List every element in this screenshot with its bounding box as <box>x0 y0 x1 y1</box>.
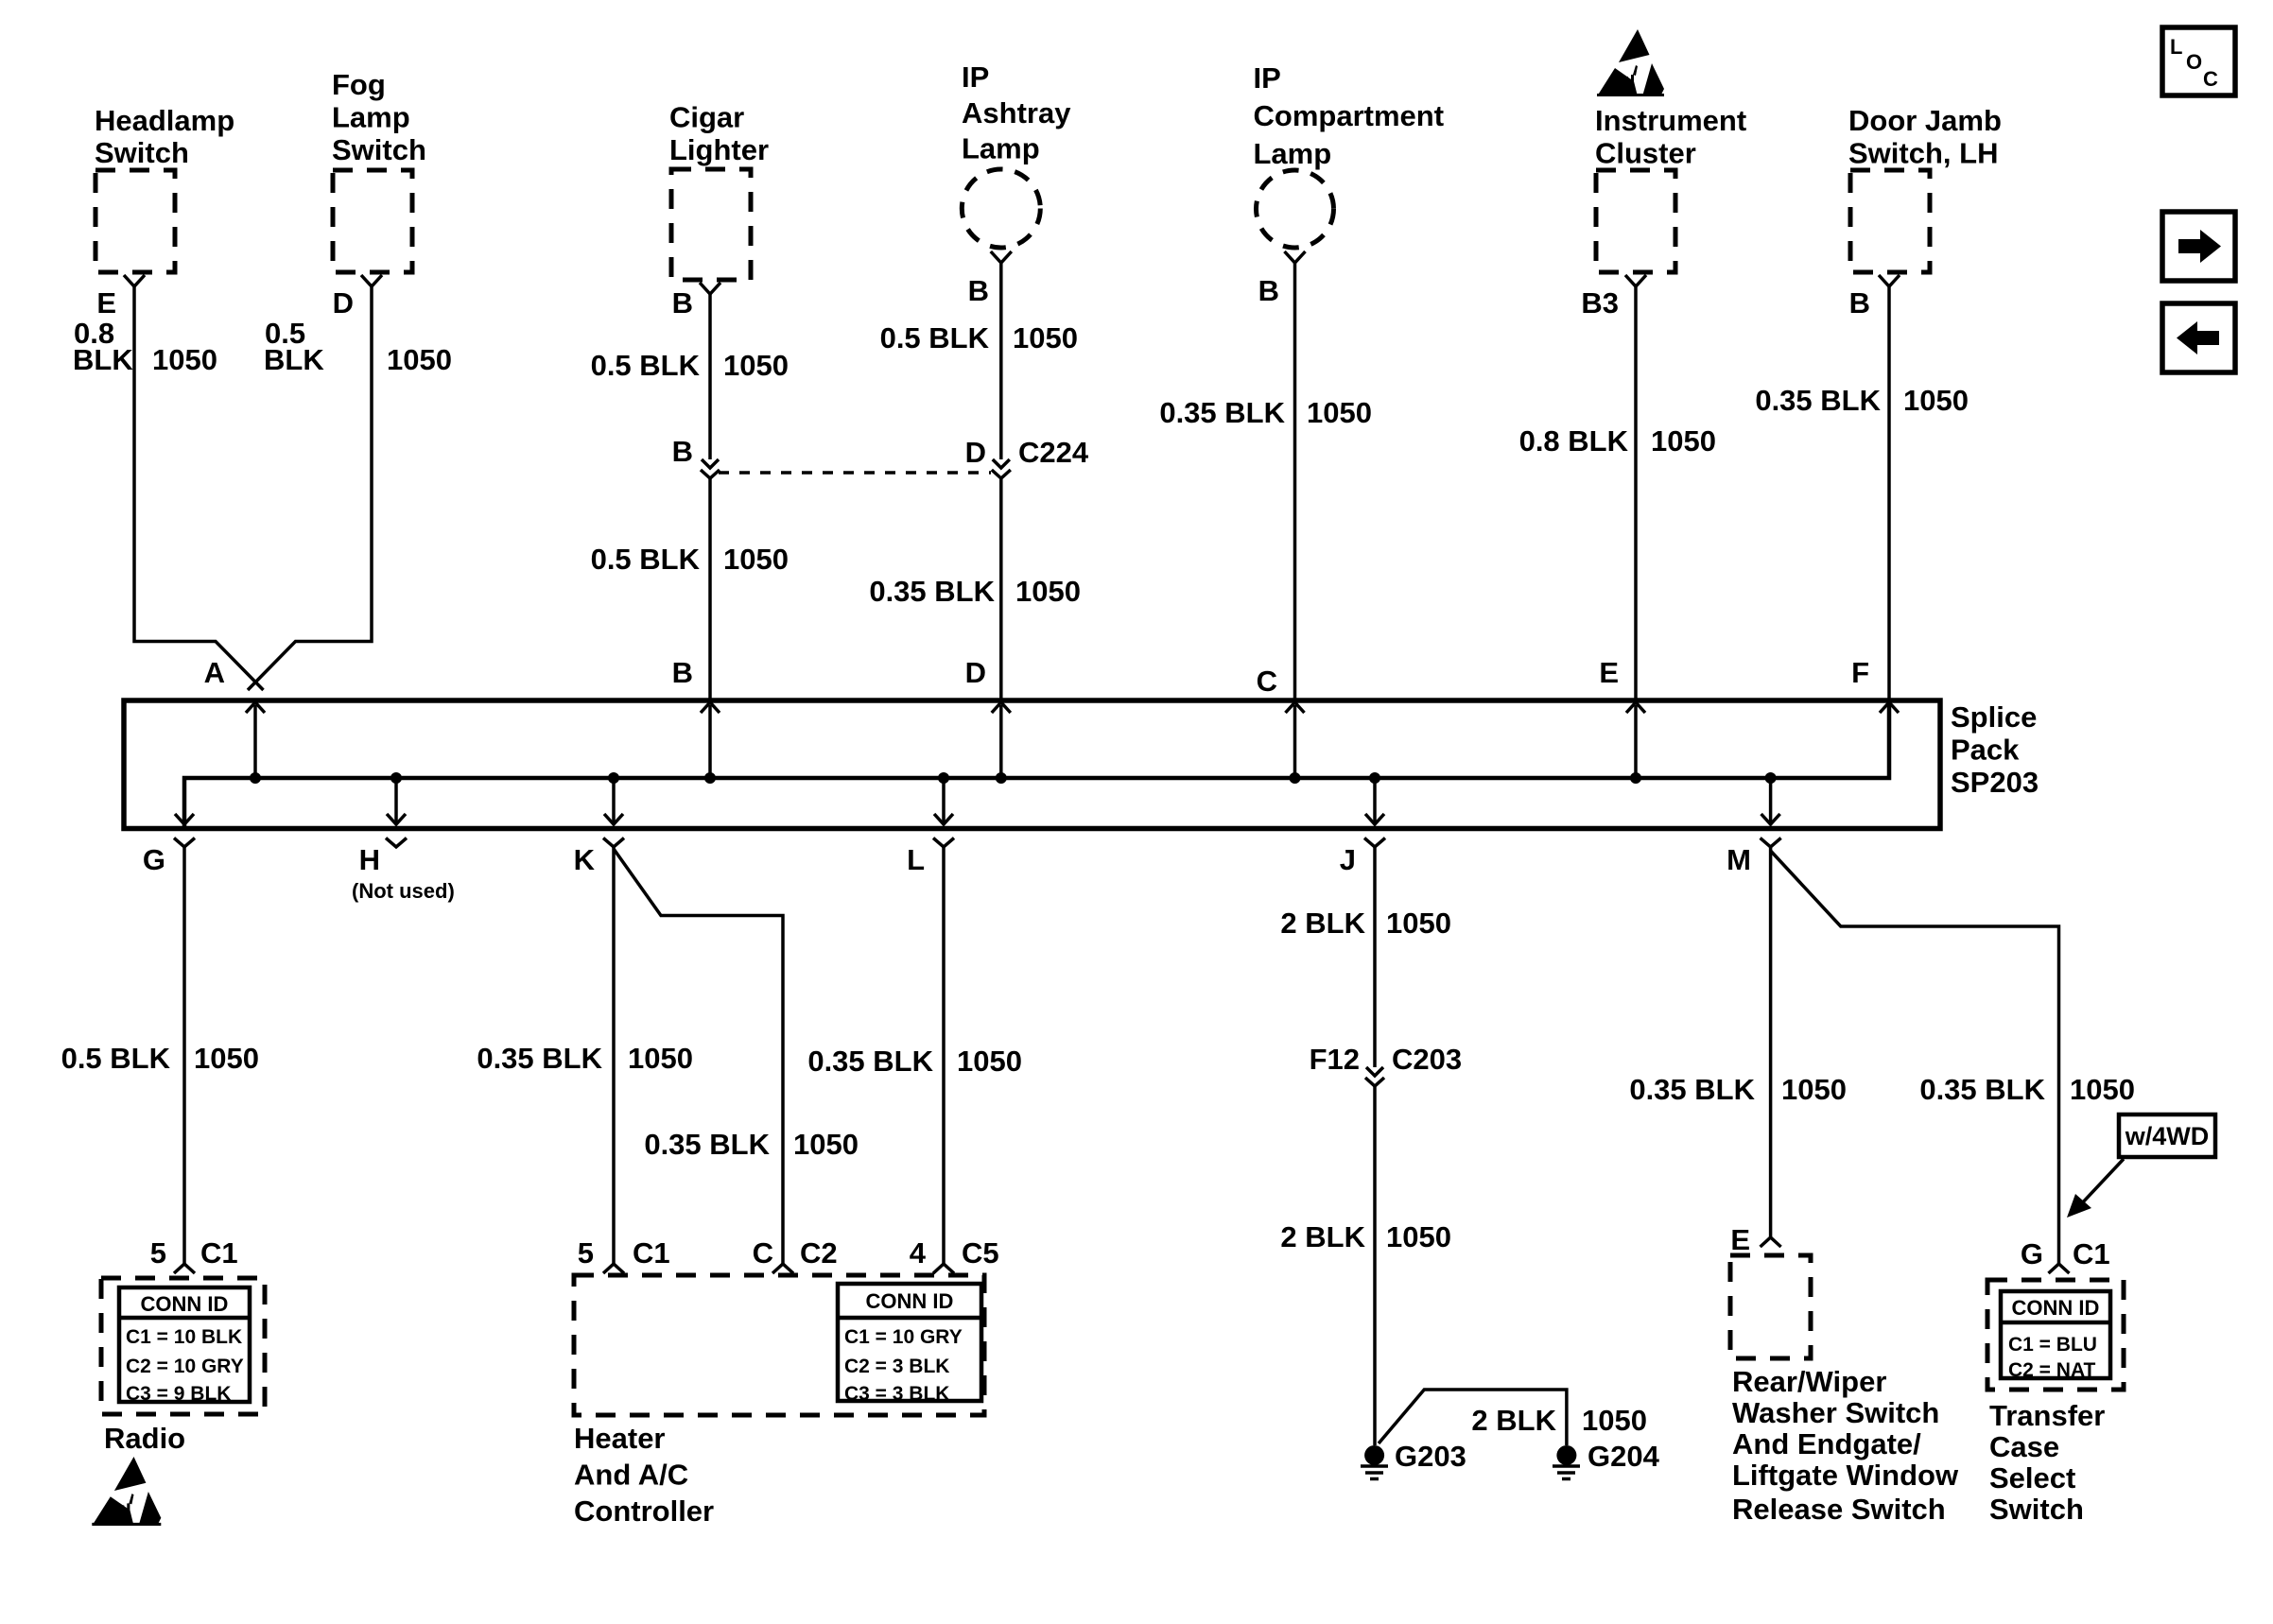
svg-text:G: G <box>143 843 165 876</box>
svg-text:B: B <box>672 286 693 320</box>
label 0.5 BLK cigar <box>591 349 701 382</box>
arrow-right box <box>2162 212 2235 281</box>
svg-text:1050: 1050 <box>387 343 452 376</box>
svg-text:1050: 1050 <box>1015 575 1081 608</box>
svg-text:And Endgate/: And Endgate/ <box>1732 1427 1921 1460</box>
IP ashtray lamp label <box>962 60 1071 165</box>
svg-text:IP: IP <box>962 60 989 94</box>
splice internal stub M <box>1769 778 1773 824</box>
svg-text:E: E <box>1599 656 1619 689</box>
junction dot A <box>250 772 261 784</box>
wire 0.35 BLK 1050 transfer case <box>1771 851 2059 1264</box>
label not used <box>352 879 455 903</box>
svg-text:Washer Switch: Washer Switch <box>1732 1396 1939 1429</box>
svg-text:5: 5 <box>578 1236 594 1270</box>
svg-text:1050: 1050 <box>793 1128 859 1161</box>
label 0.35 BLK m2 <box>1919 1073 2045 1106</box>
junction dot D <box>996 772 1007 784</box>
label 1050 heater1 <box>628 1042 693 1075</box>
junction dot M <box>1765 772 1777 784</box>
svg-text:Controller: Controller <box>574 1494 714 1528</box>
svg-text:D: D <box>333 286 354 320</box>
svg-text:CONN ID: CONN ID <box>2012 1296 2100 1320</box>
svg-text:C2: C2 <box>800 1236 838 1270</box>
svg-text:C1 = BLU: C1 = BLU <box>2008 1334 2097 1356</box>
splice internal stub K <box>612 778 616 824</box>
junction dot H <box>390 772 402 784</box>
svg-text:1050: 1050 <box>152 343 217 376</box>
svg-text:C2 = 10 GRY: C2 = 10 GRY <box>126 1356 244 1377</box>
splice exit arrow K <box>604 814 623 824</box>
wire 0.35 BLK 1050 rear wiper <box>1769 847 1773 1237</box>
svg-text:F: F <box>1851 656 1869 689</box>
svg-text:1050: 1050 <box>2070 1073 2135 1106</box>
svg-text:0.5 BLK: 0.5 BLK <box>591 349 701 382</box>
pin letter E <box>96 286 116 320</box>
w4WD arrow <box>2067 1159 2124 1218</box>
svg-text:M: M <box>1726 843 1751 876</box>
label 0.5 BLK radio <box>61 1042 171 1075</box>
label 1050 heater2 <box>793 1128 859 1161</box>
rear wiper pin marker <box>1761 1237 1781 1247</box>
fog lamp switch box <box>333 170 412 272</box>
cigar lighter label <box>669 101 769 167</box>
heater pin 4 marker <box>933 1264 954 1273</box>
svg-text:Lamp: Lamp <box>962 132 1040 165</box>
pin G transfer <box>2021 1237 2043 1270</box>
svg-text:5: 5 <box>150 1236 166 1270</box>
svg-text:Radio: Radio <box>104 1422 185 1455</box>
svg-text:0.35 BLK: 0.35 BLK <box>1159 396 1285 429</box>
pin letter B ashtray <box>968 274 989 307</box>
label 1050 headlamp <box>152 343 217 376</box>
pin C5 heater <box>962 1236 999 1270</box>
pin letter K <box>574 843 596 876</box>
svg-text:CONN ID: CONN ID <box>866 1289 954 1313</box>
svg-text:Headlamp: Headlamp <box>95 104 234 137</box>
headlamp switch label <box>95 104 234 169</box>
svg-text:1050: 1050 <box>194 1042 259 1075</box>
pin letter H <box>359 843 380 876</box>
radio connector box <box>101 1278 265 1414</box>
IP compartment lamp label <box>1254 61 1445 170</box>
heater pin C marker <box>772 1264 793 1273</box>
svg-text:0.35 BLK: 0.35 BLK <box>1755 384 1881 417</box>
label 0.8 BLK <box>73 317 133 376</box>
svg-text:E: E <box>1730 1223 1750 1256</box>
svg-text:C: C <box>2203 67 2218 91</box>
ground bridge wire to G204 <box>1379 1390 1567 1445</box>
svg-text:C3 = 3 BLK: C3 = 3 BLK <box>844 1383 949 1405</box>
svg-text:Ashtray: Ashtray <box>962 96 1071 130</box>
label 1050 m2 <box>2070 1073 2135 1106</box>
splice internal stub A <box>253 705 257 778</box>
pin letter B compartment <box>1258 274 1279 307</box>
pin letter G <box>143 843 165 876</box>
radio conn id table <box>119 1287 250 1405</box>
junction dot C <box>1290 772 1301 784</box>
svg-text:0.35 BLK: 0.35 BLK <box>869 575 995 608</box>
heater conn id table <box>838 1284 981 1405</box>
splice pin marker L <box>933 838 954 848</box>
fog lamp switch label <box>332 68 426 166</box>
splice pack label <box>1951 700 2039 799</box>
label 1050 radio <box>194 1042 259 1075</box>
splice pin marker M <box>1761 838 1781 848</box>
splice entry arrow A <box>246 702 265 713</box>
heater label <box>574 1422 714 1528</box>
svg-text:Case: Case <box>1989 1430 2059 1463</box>
svg-text:L: L <box>2170 35 2182 59</box>
headlamp switch pin E marker <box>124 275 145 286</box>
svg-text:Switch, LH: Switch, LH <box>1848 137 1998 170</box>
svg-text:C: C <box>1257 665 1277 698</box>
svg-text:C1: C1 <box>633 1236 670 1270</box>
wire 0.35 BLK 1050 ashtray lower <box>999 478 1003 700</box>
svg-text:Rear/Wiper: Rear/Wiper <box>1732 1365 1886 1398</box>
label 0.35 BLK doorjamb <box>1755 384 1881 417</box>
splice internal stub E <box>1634 705 1638 778</box>
splice internal stub H <box>394 778 398 824</box>
w4WD callout box <box>2119 1114 2215 1157</box>
svg-text:1050: 1050 <box>957 1045 1022 1078</box>
wire 0.35 BLK 1050 heater C5 <box>942 847 946 1264</box>
svg-text:Instrument: Instrument <box>1595 104 1746 137</box>
junction dot E <box>1630 772 1641 784</box>
svg-text:G204: G204 <box>1588 1440 1660 1473</box>
svg-text:1050: 1050 <box>1582 1404 1647 1437</box>
pin C1 transfer <box>2073 1237 2110 1270</box>
door jamb switch box <box>1850 170 1930 272</box>
rear wiper label <box>1732 1365 1959 1526</box>
svg-text:J: J <box>1340 843 1356 876</box>
svg-text:B: B <box>672 435 693 468</box>
svg-text:Switch: Switch <box>1989 1493 2084 1526</box>
ground label G204 <box>1588 1440 1660 1473</box>
svg-text:Release Switch: Release Switch <box>1732 1493 1946 1526</box>
label 0.5 BLK ashtray <box>880 321 990 354</box>
splice pin marker J <box>1364 838 1385 848</box>
svg-text:1050: 1050 <box>1386 907 1451 940</box>
ESD symbol instrument cluster <box>1597 29 1664 96</box>
wire 0.5 BLK 1050 cigar lower <box>708 478 712 700</box>
splice internal stub C <box>1293 705 1297 778</box>
svg-text:C5: C5 <box>962 1236 999 1270</box>
pin letter D at C224 <box>965 436 986 469</box>
svg-text:SP203: SP203 <box>1951 766 2039 799</box>
splice entry arrow E <box>1626 702 1645 713</box>
ESD symbol radio <box>92 1457 161 1526</box>
svg-text:C2 = NAT: C2 = NAT <box>2008 1359 2096 1381</box>
pin C1 radio <box>200 1236 238 1270</box>
splice pack SP203 box <box>124 700 1940 829</box>
svg-text:B3: B3 <box>1581 286 1619 320</box>
pin 5 radio <box>150 1236 166 1270</box>
svg-text:0.5 BLK: 0.5 BLK <box>880 321 990 354</box>
svg-text:And A/C: And A/C <box>574 1459 688 1492</box>
svg-text:B: B <box>1849 286 1870 320</box>
ground G204 <box>1553 1445 1580 1479</box>
wire 0.35 BLK 1050 compartment <box>1293 263 1297 700</box>
transfer case label <box>1989 1399 2105 1526</box>
svg-text:O: O <box>2186 50 2202 74</box>
pin F12 <box>1310 1043 1360 1076</box>
transfer pin marker <box>2049 1264 2070 1273</box>
svg-text:1050: 1050 <box>723 543 789 576</box>
in-line connector C203 <box>1365 1067 1384 1086</box>
label 0.35 BLK m1 <box>1629 1073 1755 1106</box>
label 1050 fog <box>387 343 452 376</box>
svg-text:1050: 1050 <box>1781 1073 1847 1106</box>
splice pin marker H <box>386 838 407 848</box>
fog lamp switch pin D marker <box>361 275 382 286</box>
pin letter M <box>1726 843 1751 876</box>
splice bus bar <box>184 703 1889 826</box>
svg-text:Lamp: Lamp <box>332 101 410 134</box>
splice internal stub D <box>999 705 1003 778</box>
svg-text:1050: 1050 <box>1307 396 1372 429</box>
svg-text:D: D <box>965 436 986 469</box>
splice exit arrow M <box>1761 814 1780 824</box>
svg-text:B: B <box>968 274 989 307</box>
svg-text:G203: G203 <box>1395 1440 1466 1473</box>
wire 0.8 BLK 1050 from headlamp switch <box>134 286 264 690</box>
cigar lighter pin B marker <box>700 283 720 294</box>
label 0.5 BLK fog <box>264 317 324 376</box>
pin letter B above connector <box>672 435 693 468</box>
IP ashtray lamp circle <box>962 169 1040 248</box>
wire 0.5 BLK 1050 cigar upper <box>708 294 712 459</box>
svg-text:w/4WD: w/4WD <box>2125 1122 2210 1150</box>
transfer case connector box <box>1987 1280 2124 1390</box>
svg-text:Switch: Switch <box>95 136 189 169</box>
splice entry arrow B <box>701 702 720 713</box>
svg-text:B: B <box>1258 274 1279 307</box>
splice exit arrow H <box>387 814 406 824</box>
label 0.35 BLK heater3 <box>807 1045 933 1078</box>
label 1050 cigar lower <box>723 543 789 576</box>
label 0.5 BLK cigar lower <box>591 543 701 576</box>
instrument cluster box <box>1596 170 1675 272</box>
svg-text:Door Jamb: Door Jamb <box>1848 104 2002 137</box>
splice entry arrow D <box>992 702 1011 713</box>
splice internal stub B <box>708 705 712 778</box>
door jamb switch label <box>1848 104 2002 170</box>
splice exit arrow J <box>1365 814 1384 824</box>
junction dot K <box>608 772 619 784</box>
wire 0.35 BLK 1050 doorjamb <box>1887 286 1891 700</box>
svg-text:1050: 1050 <box>1651 424 1716 458</box>
svg-text:0.35 BLK: 0.35 BLK <box>807 1045 933 1078</box>
label 1050 m1 <box>1781 1073 1847 1106</box>
junction dot B <box>704 772 716 784</box>
pin letter L <box>907 843 925 876</box>
label 2 BLK j1 <box>1280 907 1365 940</box>
svg-text:1050: 1050 <box>723 349 789 382</box>
svg-text:Pack: Pack <box>1951 734 2020 767</box>
label 2 BLK j2 <box>1280 1220 1365 1253</box>
svg-text:0.5 BLK: 0.5 BLK <box>61 1042 171 1075</box>
svg-text:2 BLK: 2 BLK <box>1280 1220 1365 1253</box>
svg-text:F12: F12 <box>1310 1043 1360 1076</box>
pin C heater <box>753 1236 773 1270</box>
LOC reference box <box>2162 27 2235 95</box>
splice pin marker G <box>174 838 195 848</box>
svg-text:4: 4 <box>910 1236 927 1270</box>
svg-text:2 BLK: 2 BLK <box>1280 907 1365 940</box>
pin C1 heater <box>633 1236 670 1270</box>
ground label G203 <box>1395 1440 1466 1473</box>
splice entry arrow C <box>1286 702 1305 713</box>
pin C2 heater <box>800 1236 838 1270</box>
label 1050 ashtray lower <box>1015 575 1081 608</box>
dashed connector link C224 <box>719 471 991 475</box>
svg-text:A: A <box>204 656 225 689</box>
pin 5 heater <box>578 1236 594 1270</box>
svg-text:D: D <box>965 656 986 689</box>
svg-text:Switch: Switch <box>332 133 426 166</box>
svg-text:0.35 BLK: 0.35 BLK <box>1629 1073 1755 1106</box>
label 1050 instrument <box>1651 424 1716 458</box>
wire 0.35 BLK 1050 heater C1 <box>612 847 616 1264</box>
arrow-left box <box>2162 303 2235 372</box>
svg-text:C2 = 3 BLK: C2 = 3 BLK <box>844 1356 949 1377</box>
svg-text:C: C <box>753 1236 773 1270</box>
label 0.35 BLK ashtray lower <box>869 575 995 608</box>
heater connector box <box>574 1275 984 1415</box>
svg-text:Select: Select <box>1989 1461 2075 1494</box>
transfer conn id table <box>2001 1291 2110 1381</box>
splice exit arrow G <box>175 814 194 824</box>
pin letter B doorjamb <box>1849 286 1870 320</box>
ground G203 <box>1361 1445 1388 1479</box>
radio label <box>104 1422 185 1455</box>
connector label C224 <box>1018 436 1089 469</box>
svg-text:0.35 BLK: 0.35 BLK <box>1919 1073 2045 1106</box>
svg-text:Lighter: Lighter <box>669 133 769 166</box>
svg-text:CONN ID: CONN ID <box>141 1292 229 1316</box>
node A label <box>204 656 225 689</box>
label 1050 compartment <box>1307 396 1372 429</box>
splice exit arrow L <box>934 814 953 824</box>
svg-text:1050: 1050 <box>1386 1220 1451 1253</box>
pin letter D above splice <box>965 656 986 689</box>
svg-text:0.8 BLK: 0.8 BLK <box>1519 424 1629 458</box>
rear wiper switch box <box>1730 1255 1811 1358</box>
svg-text:(Not used): (Not used) <box>352 879 455 903</box>
wire 2 BLK 1050 lower <box>1373 1086 1377 1445</box>
svg-text:Liftgate Window: Liftgate Window <box>1732 1459 1959 1492</box>
svg-text:IP: IP <box>1254 61 1281 95</box>
label 2 BLK bridge <box>1471 1404 1556 1437</box>
wire 0.5 BLK 1050 to radio <box>182 847 186 1264</box>
label 0.35 BLK heater2 <box>644 1128 770 1161</box>
pin letter J <box>1340 843 1356 876</box>
svg-text:Splice: Splice <box>1951 700 2037 734</box>
IP compartment lamp circle <box>1257 170 1334 248</box>
svg-text:Lamp: Lamp <box>1254 137 1332 170</box>
ashtray pin B marker <box>991 251 1012 263</box>
label 0.8 BLK instrument <box>1519 424 1629 458</box>
pin letter E rear wiper <box>1730 1223 1750 1256</box>
splice entry arrow F <box>1880 702 1899 713</box>
instrument cluster label <box>1595 104 1746 170</box>
pin letter F above splice <box>1851 656 1869 689</box>
pin letter B above splice <box>672 656 693 689</box>
svg-text:C203: C203 <box>1392 1043 1462 1076</box>
svg-text:0.35 BLK: 0.35 BLK <box>477 1042 602 1075</box>
svg-text:0.5 BLK: 0.5 BLK <box>591 543 701 576</box>
splice internal stub J <box>1373 778 1377 824</box>
svg-text:2 BLK: 2 BLK <box>1471 1404 1556 1437</box>
svg-text:BLK: BLK <box>73 343 133 376</box>
svg-text:C1: C1 <box>200 1236 238 1270</box>
svg-text:Cluster: Cluster <box>1595 137 1696 170</box>
instrument pin B3 marker <box>1625 275 1646 286</box>
svg-text:K: K <box>574 843 596 876</box>
svg-text:Heater: Heater <box>574 1422 666 1455</box>
cigar lighter box <box>671 169 751 280</box>
compartment pin B marker <box>1285 251 1306 263</box>
pin letter B3 <box>1581 286 1619 320</box>
svg-text:B: B <box>672 656 693 689</box>
connector label C203 <box>1392 1043 1462 1076</box>
svg-text:Fog: Fog <box>332 68 386 101</box>
junction dot L <box>938 772 949 784</box>
svg-text:Compartment: Compartment <box>1254 99 1445 132</box>
label 1050 ashtray <box>1013 321 1078 354</box>
pin letter C above splice <box>1257 665 1277 698</box>
wire 2 BLK 1050 upper <box>1373 847 1377 1067</box>
svg-text:C1: C1 <box>2073 1237 2110 1270</box>
label 1050 j2 <box>1386 1220 1451 1253</box>
pin letter D <box>333 286 354 320</box>
label 1050 bridge <box>1582 1404 1647 1437</box>
door jamb pin B marker <box>1879 275 1900 286</box>
svg-text:L: L <box>907 843 925 876</box>
radio pin 5 marker <box>174 1264 195 1273</box>
in-line connector B side <box>701 459 720 478</box>
pin letter E above splice <box>1599 656 1619 689</box>
svg-text:C3 = 9 BLK: C3 = 9 BLK <box>126 1383 231 1405</box>
svg-text:0.35 BLK: 0.35 BLK <box>644 1128 770 1161</box>
svg-text:1050: 1050 <box>628 1042 693 1075</box>
wire 0.8 BLK 1050 instrument <box>1634 286 1638 700</box>
label 0.35 BLK heater1 <box>477 1042 602 1075</box>
svg-text:C1 = 10 BLK: C1 = 10 BLK <box>126 1326 242 1348</box>
svg-text:C224: C224 <box>1018 436 1089 469</box>
headlamp switch box <box>95 170 175 272</box>
svg-text:BLK: BLK <box>264 343 324 376</box>
pin 4 heater <box>910 1236 927 1270</box>
svg-text:H: H <box>359 843 380 876</box>
svg-text:Transfer: Transfer <box>1989 1399 2105 1432</box>
wire 0.5 BLK 1050 from fog lamp switch <box>248 286 372 690</box>
label 0.35 BLK compartment <box>1159 396 1285 429</box>
junction dot J <box>1369 772 1380 784</box>
label 1050 j1 <box>1386 907 1451 940</box>
svg-text:1050: 1050 <box>1903 384 1969 417</box>
wire 0.5 BLK 1050 ashtray <box>999 263 1003 459</box>
in-line connector D side <box>992 459 1011 478</box>
svg-text:Cigar: Cigar <box>669 101 744 134</box>
svg-text:C1 = 10 GRY: C1 = 10 GRY <box>844 1326 963 1348</box>
heater pin 5 marker <box>603 1264 624 1273</box>
pin letter B cigar <box>672 286 693 320</box>
label 1050 doorjamb <box>1903 384 1969 417</box>
label 1050 heater3 <box>957 1045 1022 1078</box>
svg-text:E: E <box>96 286 116 320</box>
